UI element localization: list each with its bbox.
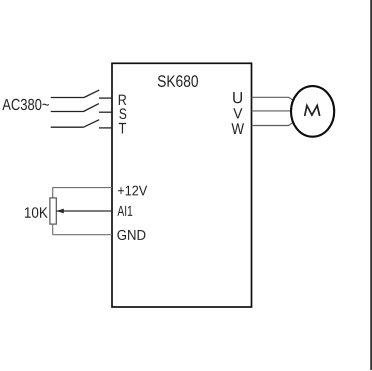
wire pot top stub <box>52 187 54 198</box>
wire U to motor <box>252 97 294 100</box>
inverter U1 SK680 box <box>112 63 252 307</box>
wire W to motor <box>252 122 294 125</box>
pin label T <box>119 123 126 134</box>
wiper arrowhead <box>56 209 64 214</box>
wire pot bottom stub <box>52 224 54 235</box>
wire +12V <box>53 187 112 189</box>
wire T terminal <box>99 127 113 129</box>
motor M1 circle <box>291 86 334 137</box>
wire R terminal <box>99 97 113 99</box>
switch S3 (T phase) <box>51 120 99 128</box>
wire S terminal <box>99 111 113 113</box>
pin label R <box>119 95 126 105</box>
potentiometer RP1 body <box>50 198 56 224</box>
pot value label 10K <box>25 207 48 218</box>
pin label U <box>233 92 242 103</box>
wire V to motor <box>252 110 292 112</box>
pin label V <box>233 108 242 118</box>
switch S2 (S phase) <box>51 104 99 112</box>
motor label M <box>305 106 320 117</box>
pin label +12V <box>118 186 147 196</box>
label SK680 <box>158 75 198 87</box>
switch S1 (R phase) <box>51 90 99 97</box>
pin label S <box>119 108 126 119</box>
pin label AI1 <box>117 206 132 216</box>
pin label W <box>232 123 245 134</box>
wire AI1 wiper <box>56 210 112 212</box>
wire GND <box>53 234 112 236</box>
label AC380~ <box>2 99 49 110</box>
pin label GND <box>117 230 145 240</box>
